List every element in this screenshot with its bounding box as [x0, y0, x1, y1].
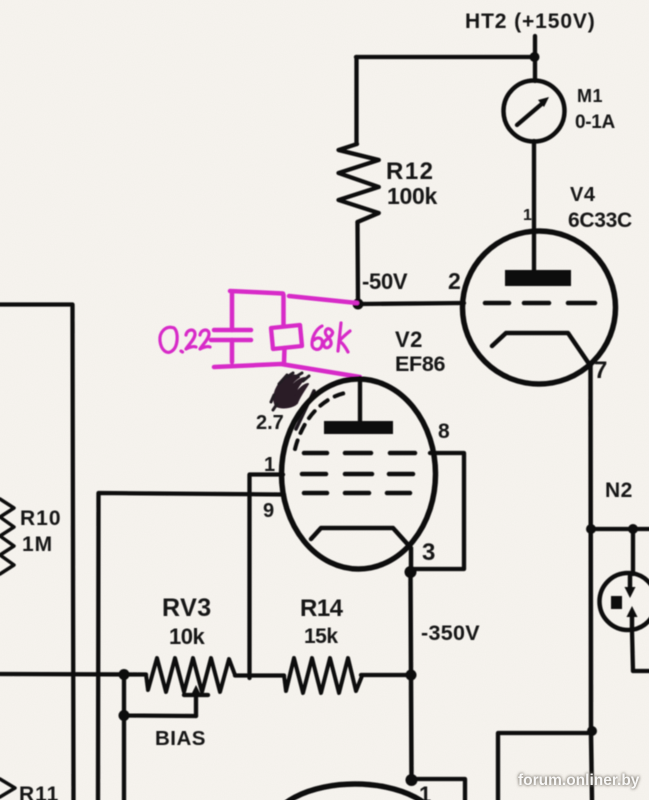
wire V2 cathode down to V3 [411, 572, 412, 780]
svg-text:N2: N2 [605, 479, 633, 502]
svg-text:2.7: 2.7 [256, 412, 284, 434]
wire M1 bottom to V4 pin 1 [532, 141, 536, 271]
wire R14 to -350V junction [361, 673, 411, 677]
grid V4 (dashed) [485, 301, 509, 306]
tube V4 envelope [463, 231, 616, 384]
wire pin1 left then down to bias rail [250, 475, 284, 679]
wire V2 grid pin at top [358, 378, 362, 424]
svg-text:EF86: EF86 [395, 352, 446, 376]
svg-text:6C33C: 6C33C [568, 209, 632, 232]
wire pin8 box right of V2 [413, 453, 464, 569]
svg-text:7: 7 [594, 357, 607, 384]
cathode V4 [492, 333, 591, 366]
svg-text:HT2 (+150V): HT2 (+150V) [465, 10, 596, 33]
anode plate V2 [324, 421, 393, 434]
svg-text:R12: R12 [386, 158, 435, 185]
junction N2 branch [628, 524, 638, 534]
junction bias/RV3 [119, 669, 130, 680]
junction V3 pin1 [406, 774, 418, 786]
value label 0.22 (handwritten) [160, 327, 210, 352]
resistor R10 1M (clipped at left edge) [0, 499, 14, 574]
junction HT2/R12/M1 [530, 52, 540, 62]
wire down to R12 [354, 57, 358, 144]
wire bias rail left [0, 672, 146, 677]
svg-text:8: 8 [438, 420, 450, 443]
meter M1 0-1A [504, 81, 565, 142]
tube V2 envelope [282, 379, 436, 569]
svg-text:10k: 10k [169, 624, 205, 649]
svg-text:V4: V4 [570, 184, 596, 206]
svg-text:-50V: -50V [362, 269, 408, 294]
wire left top rail [0, 305, 74, 800]
wire -50V junction to V4 grid [358, 303, 464, 304]
junction lower right [587, 726, 597, 736]
wire HT2 down to junction [533, 36, 537, 81]
junction -350V [406, 670, 417, 681]
svg-text:RV3: RV3 [162, 594, 212, 622]
wire junction left then down [498, 733, 591, 800]
svg-text:3: 3 [422, 539, 435, 566]
svg-text:forum.onliner.by: forum.onliner.by [518, 772, 640, 789]
svg-text:0-1A: 0-1A [575, 112, 616, 133]
wire RV3 to R14 [235, 673, 284, 677]
svg-text:-350V: -350V [421, 621, 480, 645]
capacitor 0.22 (magenta annotation) [230, 292, 235, 330]
svg-text:9: 9 [263, 500, 274, 522]
anode plate V4 [505, 270, 571, 286]
wire lamp bottom to right edge [632, 630, 649, 671]
junction wiper loop [119, 710, 130, 721]
svg-text:R10: R10 [20, 507, 62, 530]
grid rows V2 (dashed) [302, 453, 415, 493]
wire down to lamp [631, 529, 635, 574]
neon lamp indicator [600, 573, 649, 630]
potentiometer RV3 10k [146, 658, 235, 692]
watermark forum.onliner.by [518, 772, 640, 789]
wire wiper loop to bias rail [124, 675, 196, 717]
resistor R14 15k [284, 658, 362, 693]
wire pin1 box of V3 [412, 779, 466, 800]
resistor R12 100k [339, 144, 379, 222]
junction N2 on main wire [586, 524, 596, 534]
svg-text:1: 1 [523, 207, 532, 224]
svg-text:2: 2 [448, 268, 461, 294]
magenta annotation: top rail from -50V node [230, 291, 357, 303]
svg-text:R14: R14 [300, 595, 344, 622]
wire pin9 left then down [98, 493, 284, 800]
wiper RV3 with arrow [194, 692, 198, 716]
wire R12 bottom to -50V junction [355, 222, 360, 304]
cathode V2 [311, 528, 411, 572]
magenta annotation: bottom rail to V2 grid [214, 364, 360, 377]
resistor R11 (clipped at left edge) [0, 779, 15, 797]
wire down from wiper junction [122, 716, 126, 800]
svg-text:R11: R11 [19, 783, 59, 800]
wire N2 to right edge [591, 527, 649, 531]
wire V4 cathode pin7 down right side [588, 366, 593, 733]
svg-text:1M: 1M [22, 533, 53, 556]
tube V3 envelope (clipped at bottom) [270, 784, 440, 800]
value label 68k (handwritten) [312, 323, 350, 352]
internal shield (dashed arc) V2 [295, 393, 345, 449]
svg-text:M1: M1 [577, 86, 603, 106]
resistor 68k (magenta annotation, box) [281, 295, 286, 326]
grid stopper 2.7 (pencil annotation) [296, 391, 314, 429]
wire junction left to R12 top [356, 55, 535, 59]
svg-text:BIAS: BIAS [155, 727, 206, 750]
svg-text:15k: 15k [304, 625, 338, 648]
wire main down to bottom edge [591, 733, 592, 800]
junction V2 cathode [405, 566, 417, 578]
svg-text:V2: V2 [395, 327, 423, 352]
junction -50V node [353, 299, 364, 310]
svg-text:100k: 100k [387, 183, 437, 209]
